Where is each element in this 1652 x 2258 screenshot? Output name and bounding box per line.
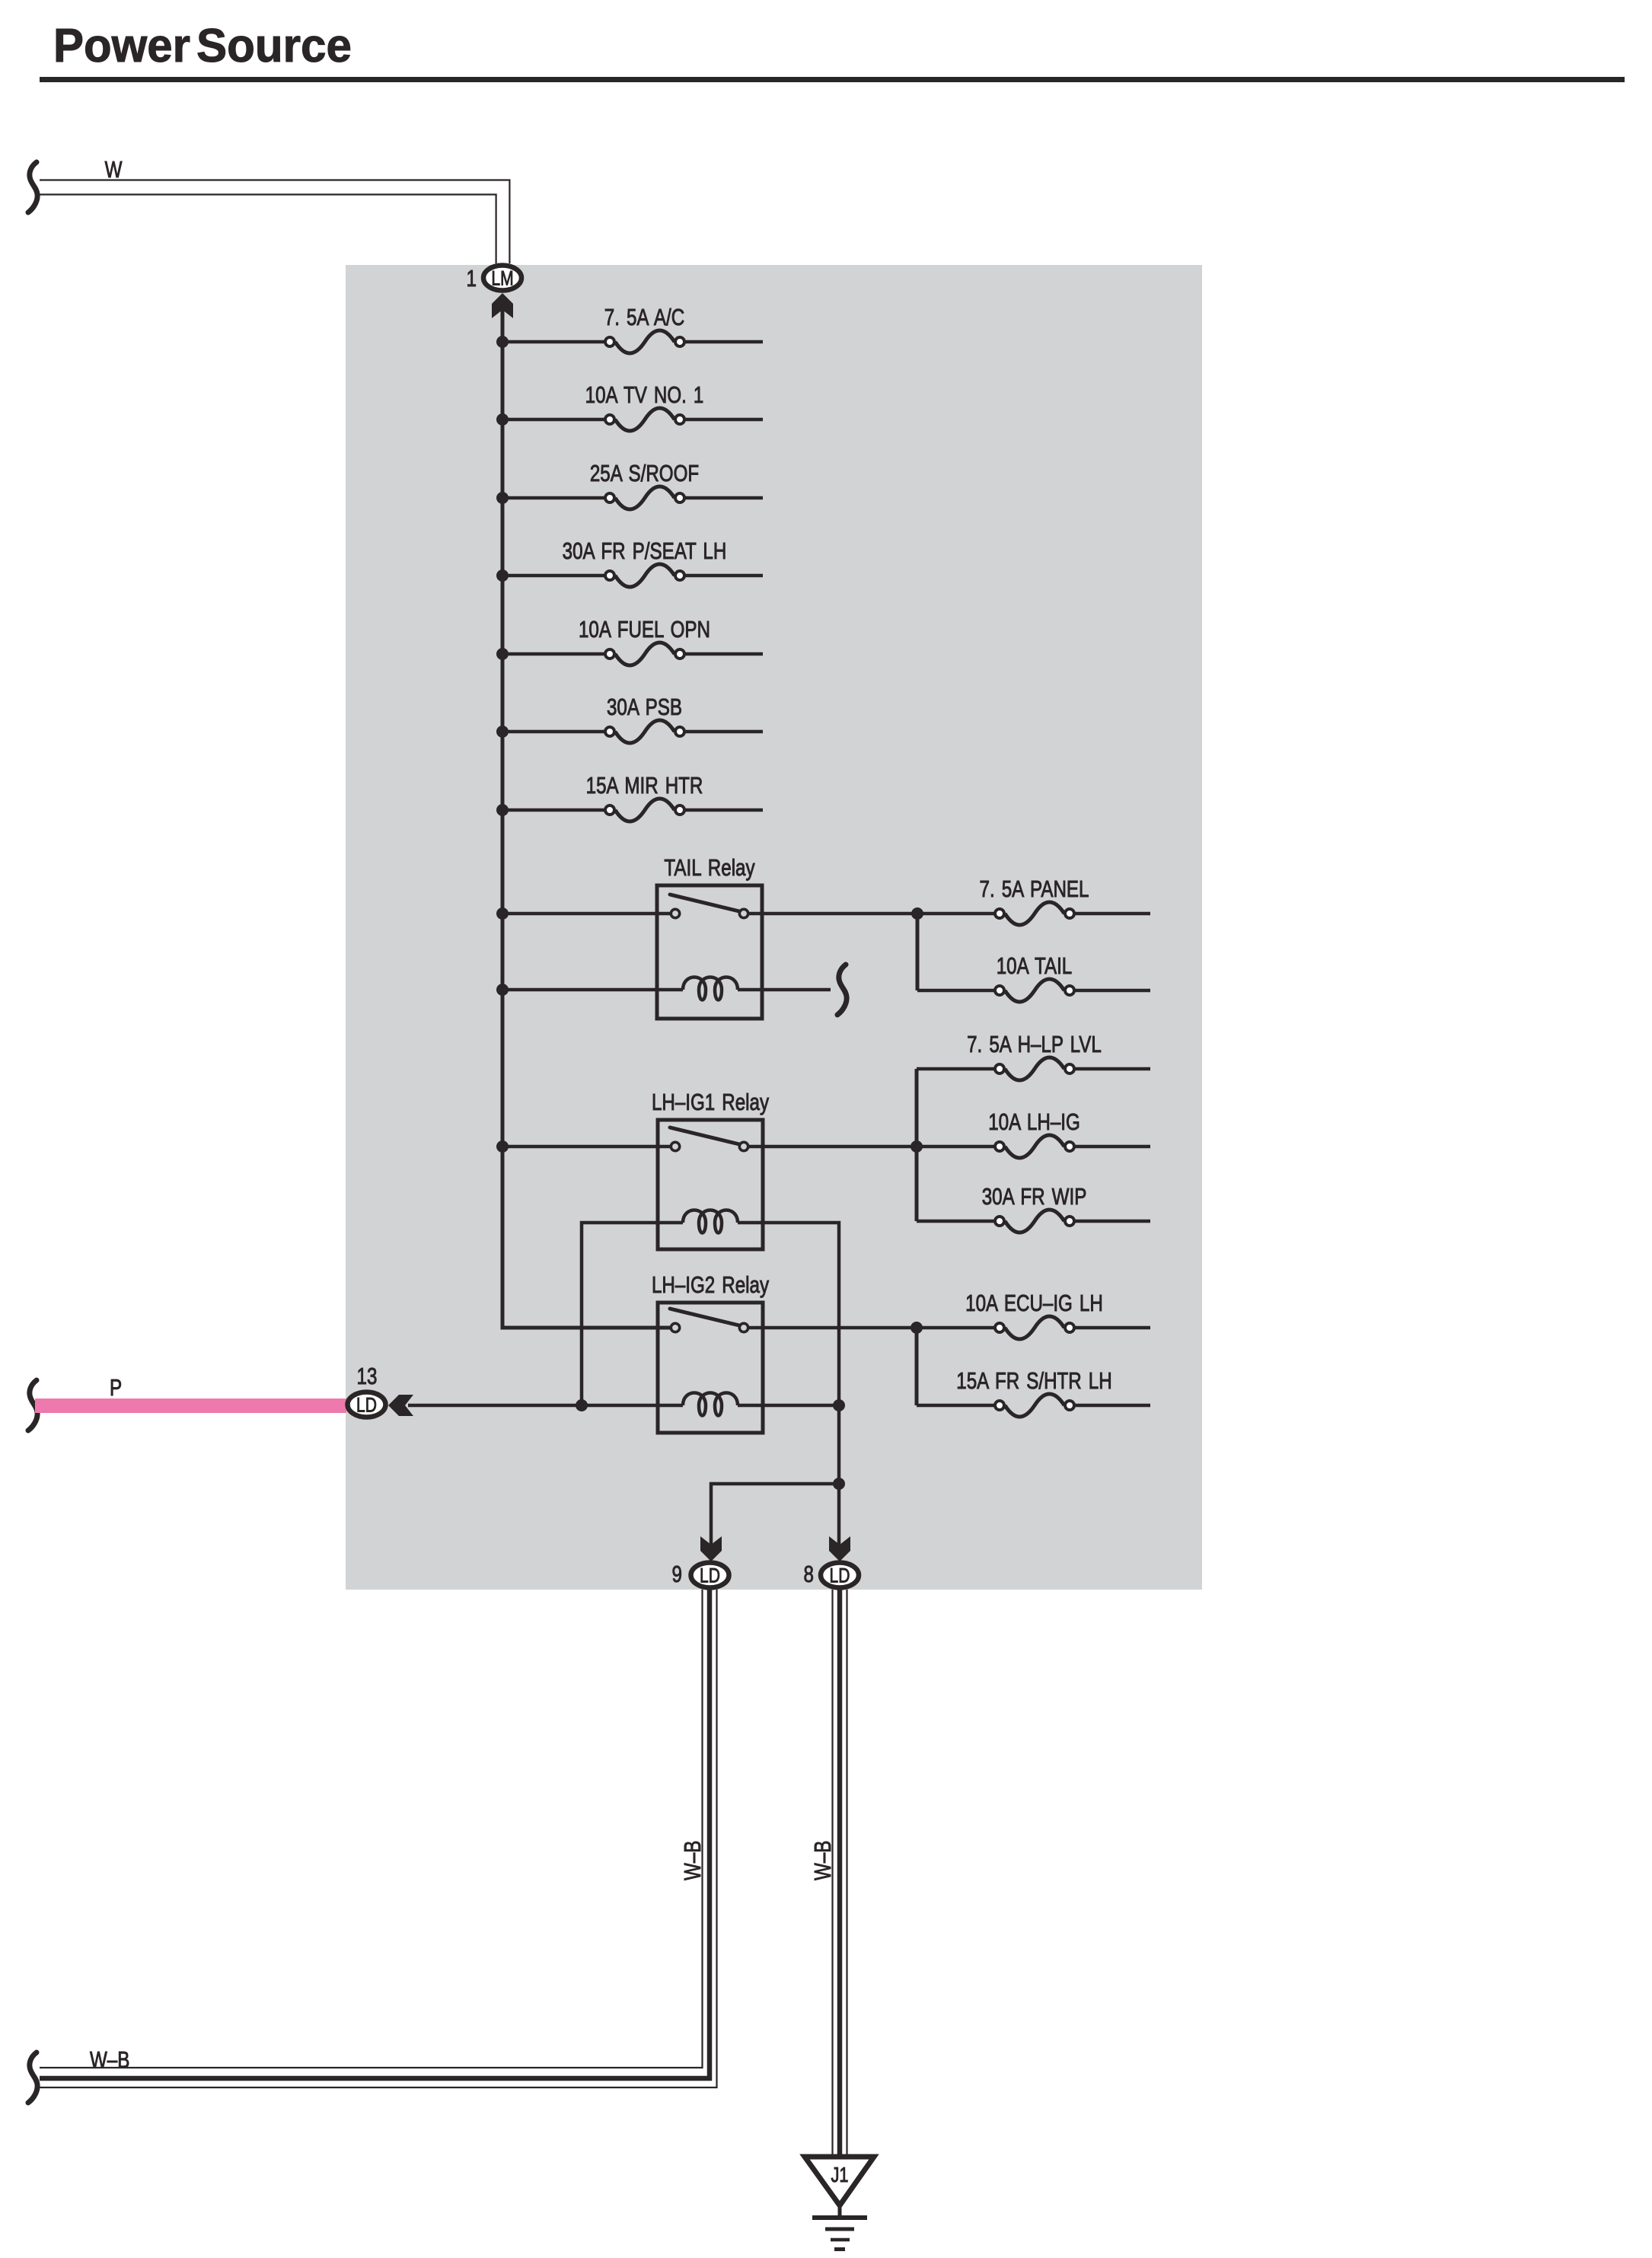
svg-text:10A LH–IG: 10A LH–IG — [988, 1108, 1080, 1135]
svg-text:30A PSB: 30A PSB — [607, 694, 682, 720]
svg-text:W: W — [105, 156, 123, 183]
svg-text:1: 1 — [467, 265, 477, 292]
svg-text:Source: Source — [196, 20, 352, 72]
svg-text:TAIL Relay: TAIL Relay — [664, 854, 754, 881]
svg-text:10A ECU–IG LH: 10A ECU–IG LH — [965, 1290, 1103, 1316]
svg-text:LD: LD — [356, 1394, 377, 1417]
svg-text:9: 9 — [672, 1561, 682, 1587]
svg-text:LH–IG1 Relay: LH–IG1 Relay — [652, 1089, 769, 1115]
svg-text:W–B: W–B — [809, 1841, 836, 1880]
svg-text:P: P — [110, 1374, 122, 1401]
svg-text:10A TAIL: 10A TAIL — [997, 952, 1073, 979]
svg-text:W–B: W–B — [679, 1841, 706, 1880]
svg-text:J1: J1 — [831, 2163, 848, 2186]
svg-text:LM: LM — [491, 267, 513, 290]
svg-text:10A TV NO. 1: 10A TV NO. 1 — [585, 381, 704, 408]
svg-text:LD: LD — [830, 1564, 850, 1587]
svg-text:LD: LD — [700, 1564, 720, 1587]
svg-text:8: 8 — [804, 1561, 814, 1587]
svg-text:30A FR P/SEAT LH: 30A FR P/SEAT LH — [563, 537, 727, 564]
svg-text:30A FR WIP: 30A FR WIP — [982, 1183, 1087, 1210]
svg-text:13: 13 — [357, 1363, 378, 1389]
svg-text:15A FR S/HTR LH: 15A FR S/HTR LH — [956, 1367, 1111, 1394]
svg-text:W–B: W–B — [90, 2046, 129, 2073]
svg-text:15A MIR HTR: 15A MIR HTR — [586, 772, 703, 799]
svg-text:25A S/ROOF: 25A S/ROOF — [590, 460, 699, 486]
svg-text:10A FUEL OPN: 10A FUEL OPN — [579, 616, 710, 643]
svg-text:7. 5A H–LP LVL: 7. 5A H–LP LVL — [967, 1031, 1102, 1057]
svg-text:LH–IG2 Relay: LH–IG2 Relay — [652, 1271, 769, 1298]
svg-text:7. 5A PANEL: 7. 5A PANEL — [980, 875, 1089, 902]
svg-text:7. 5A A/C: 7. 5A A/C — [604, 304, 684, 330]
svg-text:Power: Power — [53, 20, 190, 72]
